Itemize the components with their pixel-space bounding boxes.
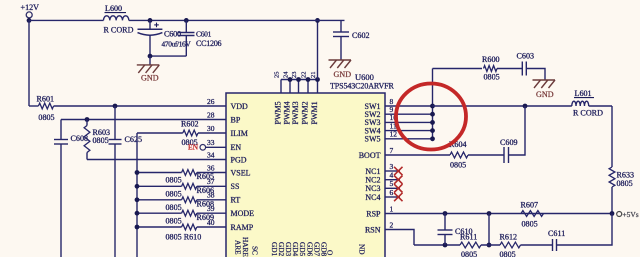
svg-text:R606: R606 [197, 186, 215, 195]
svg-text:R CORD: R CORD [104, 26, 134, 35]
inductor L601 [572, 101, 589, 106]
svg-text:NC1: NC1 [365, 167, 380, 176]
wire L601 to corner [589, 105, 612, 107]
svg-text:SS: SS [231, 182, 240, 191]
op-amp U600 TPS543C20ARVFR body [226, 93, 385, 257]
svg-text:R600: R600 [482, 55, 500, 64]
capacitor C602 [333, 31, 349, 33]
wire C611 to +5Vs node [557, 214, 613, 246]
annotation red circle around SW node [396, 84, 466, 150]
svg-text:25: 25 [274, 72, 281, 79]
svg-text:TPS543C20ARVFR: TPS543C20ARVFR [330, 82, 395, 91]
junction dot divider bottom [487, 243, 492, 248]
svg-text:ND: ND [357, 244, 366, 255]
node +12V terminal circle [26, 12, 32, 18]
wire gnd tee to ground bar [149, 56, 151, 65]
U600 top pin stubs PWM1-PWM5 [280, 80, 282, 94]
junction dot bus/R605 [135, 170, 140, 175]
svg-text:23: 23 [291, 72, 298, 79]
junction dot C610 bottom [443, 243, 448, 248]
node +5Vs terminal circle [617, 212, 622, 217]
resistor R604 [450, 152, 468, 158]
svg-text:0805: 0805 [500, 250, 516, 257]
wire R611 to R612 [481, 244, 500, 246]
capacitor C611 [552, 239, 554, 251]
junction dots on PWM bus [288, 77, 293, 82]
svg-text:34: 34 [207, 150, 215, 159]
svg-text:24: 24 [283, 71, 290, 78]
svg-text:NC4: NC4 [365, 193, 380, 202]
resistor R600 [484, 66, 498, 72]
wire C602 to ground [340, 37, 342, 61]
svg-text:RT: RT [231, 196, 241, 205]
wire RSP line [385, 213, 612, 215]
svg-text:RSN: RSN [365, 225, 381, 234]
wire R612 to C611 [521, 244, 553, 246]
svg-text:SW5: SW5 [365, 135, 381, 144]
resistor R633 (vertical) [609, 167, 615, 187]
wire RSN pin [385, 230, 414, 246]
svg-text:VSEL: VSEL [231, 168, 251, 177]
junction dot C600 at rail [148, 18, 153, 23]
svg-text:0805: 0805 [38, 113, 54, 122]
svg-text:0805: 0805 [166, 176, 182, 185]
svg-text:0805: 0805 [522, 220, 538, 229]
wire R610 line left [137, 226, 182, 228]
capacitor C603 [521, 62, 523, 76]
svg-text:CC1206: CC1206 [196, 39, 221, 48]
svg-text:C625: C625 [125, 135, 143, 144]
svg-text:2: 2 [390, 220, 394, 229]
svg-text:GND: GND [536, 90, 554, 99]
junction dot BP/R603 [85, 117, 90, 122]
svg-text:26: 26 [207, 97, 215, 106]
wire R633 to +5Vs node [611, 187, 613, 214]
svg-text:R608: R608 [197, 199, 215, 208]
svg-text:+5Vs: +5Vs [623, 210, 639, 219]
wire bottom left segment [414, 244, 460, 246]
svg-text:0805: 0805 [450, 161, 466, 170]
resistor R608 [182, 197, 197, 203]
svg-text:C601: C601 [196, 29, 212, 38]
junction dot RSP/divider [487, 211, 492, 216]
svg-text:0805: 0805 [461, 250, 477, 257]
svg-text:PWM2: PWM2 [301, 101, 310, 124]
ground under C600 [137, 64, 160, 66]
svg-text:+12V: +12V [21, 3, 40, 12]
svg-text:HARE: HARE [241, 237, 250, 257]
wire C609 up to SW1 line [509, 106, 526, 155]
wire PWM bus to +12V rail [317, 20, 319, 79]
junction dot PWM riser at rail [315, 18, 320, 23]
junction dot SW1/C609 riser [523, 104, 528, 109]
junction dot at +12V corner [27, 18, 32, 23]
junction dot C601 at rail [184, 18, 189, 23]
svg-text:0805: 0805 [617, 179, 633, 188]
wire R610 to IC [197, 226, 226, 228]
svg-text:SC: SC [250, 246, 259, 255]
wire VDD line left [29, 105, 38, 107]
svg-text:NC3: NC3 [365, 184, 380, 193]
svg-text:C602: C602 [352, 31, 370, 40]
svg-text:MODE: MODE [231, 209, 255, 218]
wire SW1 line to L601 [433, 105, 572, 107]
svg-text:EN: EN [231, 143, 242, 152]
wire R604 to C609 [468, 154, 504, 156]
wire R609 line left [137, 212, 182, 214]
wire rail to C600 [149, 20, 151, 29]
svg-text:1: 1 [390, 204, 394, 213]
junction dot bus/R610 [135, 225, 140, 230]
resistor R602 [183, 130, 198, 136]
wire PWM bus [281, 79, 318, 81]
resistor R609 [182, 210, 197, 216]
capacitor C608 [54, 139, 68, 141]
junction dot RSP/C610 [443, 211, 448, 216]
svg-text:R612: R612 [500, 233, 518, 242]
svg-text:L601: L601 [575, 89, 592, 98]
svg-text:PWM3: PWM3 [291, 101, 300, 124]
ground under C603 [533, 79, 556, 81]
capacitor C609 [503, 147, 505, 163]
svg-text:R601: R601 [37, 95, 55, 104]
wires NC1-NC4 stubs [385, 170, 400, 172]
wire BP corner down to C608 [60, 120, 62, 140]
junction dot VDD/C625 [113, 104, 118, 109]
svg-text:EN: EN [188, 143, 199, 152]
wire C608 to bottom edge [60, 144, 62, 257]
wire left ground bus [136, 133, 138, 257]
capacitor C610 [444, 214, 446, 231]
wire +12V terminal to rail corner [28, 18, 30, 21]
resistor R610 [182, 224, 197, 230]
wire gnd tee horizontal [150, 55, 186, 57]
junction dot bus/R608 [135, 197, 140, 202]
svg-text:R CORD: R CORD [573, 109, 603, 118]
svg-text:PWM5: PWM5 [274, 101, 283, 124]
svg-text:3: 3 [390, 162, 394, 171]
svg-text:0805: 0805 [166, 203, 182, 212]
capacitor C601 [178, 32, 194, 34]
wire ILIM line left [137, 132, 183, 134]
capacitor C600 (electrolytic) [138, 28, 163, 30]
svg-text:33: 33 [207, 138, 215, 147]
svg-text:5: 5 [390, 179, 394, 188]
junction dot +5Vs node [610, 211, 615, 216]
resistor R607 [521, 211, 544, 217]
svg-text:RSP: RSP [366, 209, 381, 218]
svg-text:GND: GND [141, 74, 159, 83]
svg-text:C611: C611 [548, 229, 565, 238]
svg-text:R602: R602 [181, 120, 199, 129]
wire C603 to gnd corner [526, 69, 545, 81]
wires SW1-SW5 stubs [385, 105, 433, 107]
no-connect X marks NC1-NC4 [394, 167, 402, 175]
svg-text:GND: GND [334, 70, 352, 79]
svg-text:BOOT: BOOT [359, 151, 381, 160]
svg-text:PGD: PGD [231, 155, 247, 164]
wire BP line [61, 119, 226, 121]
wire +12V vertical to R601 [28, 20, 30, 106]
junction dots SW bus [430, 104, 435, 109]
wire rail to C601 [185, 20, 187, 32]
svg-text:21: 21 [310, 72, 317, 79]
wire top rail right segment [129, 19, 345, 21]
inductor L600 [104, 16, 129, 21]
wire SW bus vertical [432, 69, 434, 139]
capacitor C625 [109, 139, 122, 141]
svg-text:7: 7 [390, 146, 394, 155]
svg-text:R609: R609 [197, 213, 215, 222]
junction dot gnd tee [148, 54, 153, 59]
wire R605 line left [137, 172, 182, 174]
svg-text:22: 22 [301, 72, 308, 79]
svg-text:0805: 0805 [166, 190, 182, 199]
svg-text:O: O [325, 250, 334, 255]
wire VDD line to IC pin 26 [54, 105, 226, 107]
svg-text:U600: U600 [355, 72, 374, 82]
svg-text:0805: 0805 [93, 136, 109, 145]
svg-text:RAMP: RAMP [231, 223, 254, 232]
wire R600 to C603 [497, 68, 522, 70]
svg-text:30: 30 [207, 124, 215, 133]
capacitor C600 plus sign [154, 24, 159, 26]
svg-text:C603: C603 [517, 52, 535, 61]
wire C600 to gnd tee [149, 35, 151, 56]
wire R609 to IC [197, 212, 226, 214]
wire RSP to bottom divider [488, 214, 490, 246]
wire R608 line left [137, 199, 182, 201]
svg-text:28: 28 [207, 110, 215, 119]
wire R608 to IC [197, 199, 226, 201]
svg-text:VDD: VDD [231, 102, 249, 111]
ground under C602 [329, 59, 352, 61]
wire BOOT pin to R604 [385, 154, 450, 156]
svg-text:C600: C600 [164, 30, 181, 39]
svg-text:0805 R610: 0805 R610 [166, 233, 202, 242]
resistor R601 [38, 103, 53, 109]
wire corner down to R633 [611, 106, 613, 167]
wire VDD to C625 [114, 106, 116, 140]
wire C625 to bottom edge [114, 144, 116, 257]
resistor R606 [182, 183, 197, 189]
svg-text:6: 6 [390, 188, 394, 197]
svg-text:0805: 0805 [484, 73, 500, 82]
wire PGD line [87, 159, 226, 161]
svg-text:R605: R605 [197, 172, 215, 181]
EN terminal circle [200, 145, 206, 151]
wire EN circle to IC pin 33 [206, 146, 226, 148]
wire rail end down to C602 [340, 20, 342, 32]
svg-text:PWM1: PWM1 [310, 101, 319, 124]
wire snubber top [433, 68, 483, 70]
svg-text:0805: 0805 [166, 216, 182, 225]
wire C601 to gnd tee [185, 36, 187, 57]
svg-text:ILIM: ILIM [231, 129, 248, 138]
svg-text:C609: C609 [500, 138, 518, 147]
resistor R603 (vertical) [84, 126, 90, 153]
resistor R605 [182, 170, 197, 176]
svg-text:R611: R611 [460, 233, 477, 242]
wire R605 to IC [197, 172, 226, 174]
svg-text:R607: R607 [521, 201, 539, 210]
wire top rail left segment [29, 19, 104, 21]
wire ILIM to IC pin 30 [198, 132, 226, 134]
junction dot bus/R609 [135, 211, 140, 216]
svg-text:L600: L600 [105, 4, 122, 13]
junction dot bus/R606 [135, 184, 140, 189]
resistor R612 [500, 242, 521, 248]
svg-text:BP: BP [231, 115, 241, 124]
svg-text:36: 36 [207, 163, 215, 172]
wire R606 to IC [197, 185, 226, 187]
wire R606 line left [137, 185, 182, 187]
resistor R611 [460, 242, 481, 248]
